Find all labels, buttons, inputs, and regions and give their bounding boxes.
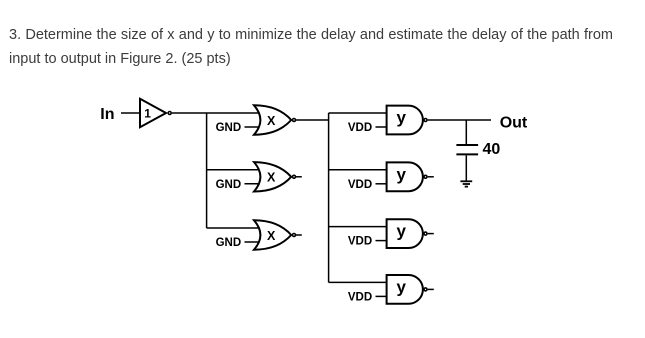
svg-text:VDD: VDD [348,122,372,134]
svg-text:y: y [397,108,407,127]
svg-text:In: In [100,106,114,123]
svg-text:VDD: VDD [348,291,372,303]
svg-text:GND: GND [216,237,242,249]
svg-text:1: 1 [144,106,151,120]
svg-text:X: X [267,229,276,243]
svg-text:y: y [397,222,407,241]
svg-text:Out: Out [500,115,528,132]
svg-text:40: 40 [483,141,501,158]
svg-text:GND: GND [216,122,242,134]
svg-text:y: y [397,277,407,296]
svg-text:GND: GND [216,179,242,191]
svg-text:X: X [267,171,276,185]
svg-text:VDD: VDD [348,236,372,248]
svg-text:y: y [397,165,407,184]
svg-text:VDD: VDD [348,179,372,191]
svg-text:X: X [267,114,276,128]
